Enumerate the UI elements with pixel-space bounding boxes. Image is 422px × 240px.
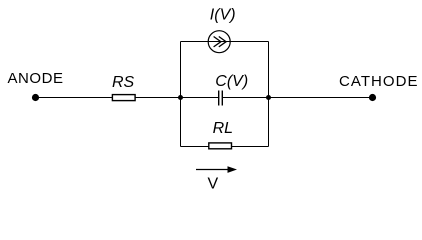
current source I(V) [208, 6, 235, 52]
wire right junction to cathode [269, 97, 373, 99]
wire anode to left junction [36, 97, 181, 99]
svg-text:RS: RS [112, 74, 135, 91]
node ANODE [8, 70, 64, 101]
svg-text:V: V [208, 176, 219, 193]
arrow V (voltage reference direction) [196, 166, 237, 192]
wire bottom branch [181, 146, 269, 148]
resistor RL [209, 120, 233, 149]
svg-text:I(V): I(V) [210, 6, 236, 23]
junction left node [178, 95, 183, 100]
resistor RS [112, 74, 135, 101]
wire left junction to right junction (middle branch) [181, 97, 269, 99]
capacitor C(V) [215, 73, 248, 106]
svg-text:RL: RL [213, 120, 233, 137]
node CATHODE [339, 73, 418, 101]
wire top branch [181, 41, 269, 43]
svg-text:ANODE: ANODE [8, 70, 64, 87]
junction right node [266, 95, 271, 100]
svg-text:CATHODE: CATHODE [339, 73, 418, 90]
svg-text:C(V): C(V) [215, 73, 248, 90]
wire left vertical branch [180, 42, 182, 147]
wire right vertical branch [268, 42, 270, 147]
